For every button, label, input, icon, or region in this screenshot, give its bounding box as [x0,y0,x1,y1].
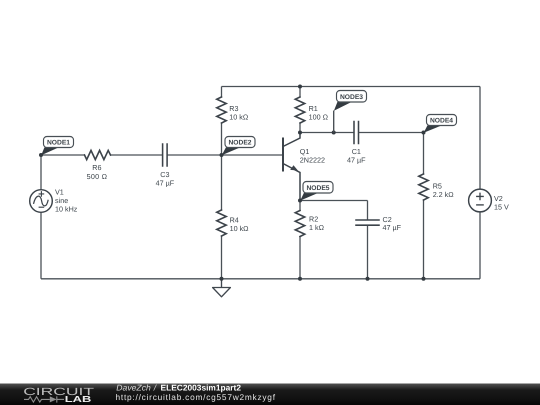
svg-text:47 µF: 47 µF [383,223,402,232]
svg-text:R6: R6 [92,163,101,172]
junction dot NODE2 [220,153,224,157]
wire R1 bottom lead [299,123,301,133]
wire V1 top lead [40,155,42,190]
wire R6 to C3 [111,154,163,156]
wire emitter node to C2 [300,200,368,202]
wire bottom rail [41,278,480,280]
wire R5 bottom lead [423,200,425,279]
voltage source V1 [30,190,53,213]
wire C2 top lead [367,201,369,221]
resistor R6 [85,150,111,159]
junction dot NODE5 emitter node [298,199,302,203]
svg-text:1 kΩ: 1 kΩ [309,223,325,232]
junction dot C2 bottom [366,277,370,281]
resistor R3 [217,97,226,123]
wire C1 to NODE4 [359,132,424,134]
svg-text:10 kΩ: 10 kΩ [230,224,250,233]
junction dot NODE3 anchor [332,131,336,135]
svg-text:ELEC2003sim1part2: ELEC2003sim1part2 [161,383,242,393]
node NODE4 [424,115,457,133]
wire R3 bottom lead [221,123,223,155]
svg-text:10 kΩ: 10 kΩ [229,113,249,122]
resistor R2 [295,211,304,237]
svg-text:LAB: LAB [65,394,92,404]
svg-text:NODE5: NODE5 [306,185,329,192]
svg-text:47 µF: 47 µF [347,156,366,165]
capacitor C3 [163,144,168,166]
wire V2 bottom lead [479,212,481,279]
wire R1 top lead [299,87,301,98]
junction dot R5 bottom [422,277,426,281]
svg-text:10 kHz: 10 kHz [55,204,78,213]
capacitor C1 [354,122,359,144]
svg-text:NODE3: NODE3 [340,94,363,101]
wire C2 bottom lead [367,225,369,279]
node NODE5 [300,182,333,201]
wire R4 top lead [221,155,223,210]
junction dot collector node [298,131,302,135]
svg-text:15 V: 15 V [494,202,509,211]
capacitor C2 [356,220,379,225]
junction dot R2 bottom [298,277,302,281]
junction dot top rail R1 [298,85,302,89]
junction dot NODE4 anchor [422,131,426,135]
node NODE3 [334,91,367,133]
svg-text:http://circuitlab.com/cg557w2m: http://circuitlab.com/cg557w2mkzygf [116,392,276,402]
footer credit text [116,383,276,403]
svg-text:NODE2: NODE2 [228,140,251,147]
wire R2 top lead [299,201,301,211]
wire R2 bottom lead [299,237,301,279]
wire V2 top lead [479,87,481,190]
wire R4 bottom lead [221,236,223,279]
svg-text:DaveZch: DaveZch [116,383,151,393]
svg-text:2N2222: 2N2222 [300,156,325,165]
footer bar [0,384,540,405]
wire C3 to NODE2 [167,154,221,156]
svg-text:47 µF: 47 µF [156,179,175,188]
logo CircuitLab [23,387,95,404]
wire V1 bottom lead [40,212,42,278]
svg-text:NODE1: NODE1 [47,140,70,147]
svg-text:2.2 kΩ: 2.2 kΩ [433,190,455,199]
wire R5 top lead [423,133,425,175]
wire NODE1 to R6 [41,154,85,156]
resistor R1 [295,97,304,123]
resistor R4 [217,210,226,236]
svg-text:NODE4: NODE4 [430,118,453,125]
wire R3 top lead [221,87,223,98]
ground [213,279,231,297]
junction dot ground [220,277,224,281]
wire collector node to C1 [300,132,354,134]
svg-text:100 Ω: 100 Ω [309,113,329,122]
transistor Q1 [283,133,300,201]
wire top rail [222,86,481,88]
junction dot NODE1 [39,153,43,157]
node NODE1 [41,137,73,156]
node NODE2 [222,137,255,156]
voltage source V2 [469,189,492,212]
resistor R5 [419,174,428,200]
svg-text:500 Ω: 500 Ω [87,172,108,181]
wire base: NODE2 to Q1 base [222,154,284,156]
